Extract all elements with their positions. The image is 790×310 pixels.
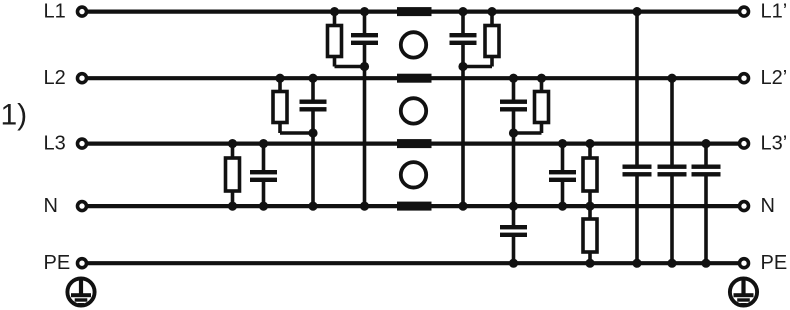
svg-text:L3’: L3’ xyxy=(761,133,788,155)
svg-text:L1: L1 xyxy=(44,1,66,23)
junction L3/C3 xyxy=(259,139,268,148)
capacitor C8 (L1'-PE) xyxy=(623,12,652,264)
label N (left) xyxy=(44,195,58,217)
junction L1'/C8 xyxy=(632,7,641,16)
capacitor C1 xyxy=(351,12,378,45)
choke L core circle 3 xyxy=(401,162,426,187)
label L1’ (right) xyxy=(761,1,788,23)
wire C2 branch to N rail xyxy=(311,112,315,207)
label L2’ (right) xyxy=(761,67,788,89)
junction R3/N xyxy=(228,202,237,211)
junction L2/R2 xyxy=(275,74,284,83)
junction R6/N xyxy=(585,202,594,211)
resistor R6 xyxy=(583,144,597,207)
junction L3'/C10 xyxy=(701,139,710,148)
junction L3'/C6 xyxy=(558,139,567,148)
capacitor C2 xyxy=(300,78,327,111)
resistor R3 xyxy=(226,144,240,207)
terminal PE (right) xyxy=(740,259,749,268)
choke L core circle 2 xyxy=(401,98,426,123)
resistor R2 xyxy=(273,78,287,133)
resistor R5 xyxy=(535,78,549,133)
svg-text:L1’: L1’ xyxy=(761,1,788,23)
label L2 (left) xyxy=(44,67,66,89)
terminal L3’ (right) xyxy=(740,139,749,148)
label L3’ (right) xyxy=(761,133,788,155)
svg-text:N: N xyxy=(44,195,58,217)
protective earth symbol (right) xyxy=(730,278,757,305)
junction C3/N xyxy=(259,202,268,211)
junction L2'/C9 xyxy=(667,74,676,83)
terminal N (left) xyxy=(78,202,87,211)
junction R1-C1 node xyxy=(360,62,369,71)
junction L2/C2 xyxy=(308,74,317,83)
note label 1) xyxy=(1,99,28,132)
svg-text:1): 1) xyxy=(1,99,28,132)
wire L2 rail xyxy=(87,76,739,80)
junction L1/C1 xyxy=(360,7,369,16)
wire C4/R4 join xyxy=(463,65,492,69)
junction L1'/R4 xyxy=(487,7,496,16)
junction branch-D/N xyxy=(458,202,467,211)
terminal PE (left) xyxy=(78,259,87,268)
wire R1/C1 join xyxy=(335,65,365,69)
label PE (right) xyxy=(761,252,788,274)
junction L2'/R5 xyxy=(537,74,546,83)
capacitor C5 xyxy=(500,78,527,111)
terminal N (right) xyxy=(740,202,749,211)
resistor R4 xyxy=(485,12,499,67)
junction L3'/R6 xyxy=(585,139,594,148)
choke L winding bar on L3 xyxy=(397,139,432,148)
choke L core circle 1 xyxy=(401,32,426,57)
terminal L3 (left) xyxy=(78,139,87,148)
junction R2-C2 node xyxy=(308,128,317,137)
capacitor C10 (L3'-PE) xyxy=(692,144,721,264)
wire C1 branch to N rail xyxy=(363,45,367,206)
choke L winding bar on N xyxy=(397,202,432,211)
capacitor C6 xyxy=(549,144,576,207)
junction L2'/C5 xyxy=(509,74,518,83)
junction R7/PE xyxy=(585,259,594,268)
label L1 (left) xyxy=(44,1,66,23)
wire C5/R5 join xyxy=(514,131,542,135)
svg-text:N: N xyxy=(761,195,775,217)
junction C7/PE xyxy=(509,259,518,268)
junction L3/R3 xyxy=(228,139,237,148)
svg-text:L2’: L2’ xyxy=(761,67,788,89)
capacitor C7 (N-PE) xyxy=(500,206,527,263)
wire N rail xyxy=(87,204,739,208)
resistor R1 xyxy=(328,12,342,67)
junction L1/R1 xyxy=(330,7,339,16)
wire C5 branch to N rail xyxy=(512,112,516,207)
junction C8/PE xyxy=(632,259,641,268)
terminal L1 (left) xyxy=(78,7,87,16)
label L3 (left) xyxy=(44,133,66,155)
protective earth symbol (left) xyxy=(67,278,94,305)
wire R2/C2 join xyxy=(280,131,313,135)
junction C4-R4 node xyxy=(458,62,467,71)
resistor R7 (N-PE) xyxy=(583,206,597,263)
junction branch-E/N xyxy=(509,202,518,211)
svg-text:L2: L2 xyxy=(44,67,66,89)
capacitor C4 xyxy=(450,12,477,45)
junction branch-A/N xyxy=(360,202,369,211)
terminal L2’ (right) xyxy=(740,74,749,83)
capacitor C3 xyxy=(250,144,277,207)
wire C4 branch to N rail xyxy=(461,45,465,206)
svg-text:L3: L3 xyxy=(44,133,66,155)
svg-text:PE: PE xyxy=(44,252,71,274)
label N (right) xyxy=(761,195,775,217)
junction C5-R5 node xyxy=(509,128,518,137)
wire L3 rail xyxy=(87,142,739,146)
junction branch-B/N xyxy=(308,202,317,211)
terminal L2 (left) xyxy=(78,74,87,83)
wire PE rail xyxy=(87,261,739,265)
label PE (left) xyxy=(44,252,71,274)
svg-text:PE: PE xyxy=(761,252,788,274)
choke L winding bar on L1 xyxy=(397,7,432,16)
wire L1 rail xyxy=(87,10,739,14)
capacitor C9 (L2'-PE) xyxy=(658,78,687,263)
junction C10/PE xyxy=(701,259,710,268)
choke L winding bar on L2 xyxy=(397,74,432,83)
junction C6/N xyxy=(558,202,567,211)
junction L1'/C4 xyxy=(458,7,467,16)
terminal L1’ (right) xyxy=(740,7,749,16)
junction C9/PE xyxy=(667,259,676,268)
